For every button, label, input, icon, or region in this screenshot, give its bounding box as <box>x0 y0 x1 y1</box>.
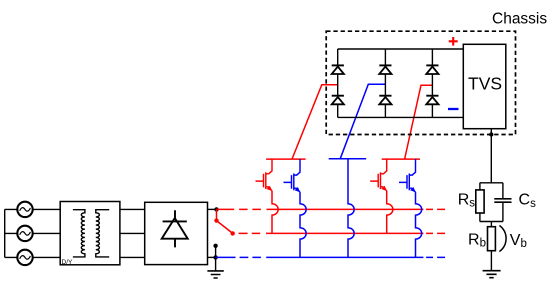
svg-text:Rs: Rs <box>458 191 476 209</box>
diode D1b <box>332 96 344 105</box>
svg-text:Chassis: Chassis <box>492 10 547 27</box>
label plus <box>449 37 458 46</box>
wire leg3 to bridge diagonal <box>405 85 433 159</box>
node P dot <box>214 207 218 211</box>
node chassis crossing dot <box>489 132 493 136</box>
wire sources to transformer <box>33 209 61 257</box>
wire Q3 emitter to rail 2 with hop <box>387 191 393 234</box>
phase leg 2 top bar (blue) <box>329 158 367 160</box>
wire leg2 column to blue rail with hops <box>348 159 354 258</box>
svg-text:Vb: Vb <box>510 232 527 250</box>
wire Q4 emitter to blue rail with hops <box>416 192 422 257</box>
voltage arc Vb <box>499 226 506 252</box>
ground G2 <box>483 271 501 278</box>
wire leg2 to bridge diagonal (blue) <box>340 84 385 159</box>
AC source V1 <box>17 202 32 217</box>
CM bridge top bar <box>338 48 464 50</box>
transistor Q3 (red IGBT) <box>370 159 387 191</box>
CM bridge leg 1 <box>337 49 339 117</box>
diode D3b <box>379 96 391 105</box>
diode D5 <box>426 65 438 74</box>
wire neutral bus <box>5 209 18 257</box>
CM bridge bottom bar <box>338 116 464 118</box>
AC source V2 <box>17 226 32 241</box>
wire leg1 to bridge diagonal <box>292 85 338 159</box>
AC source V3 <box>17 250 32 265</box>
wire rectifier positive output <box>208 208 217 210</box>
wire Q2 emitter to blue rail with hops <box>300 192 306 257</box>
switch S1 pole stub <box>216 209 218 220</box>
diode D3 <box>379 65 391 74</box>
rail DC+ option 2 <box>239 232 445 234</box>
transistor Q4 (blue IGBT) <box>399 160 416 192</box>
resistor Rs <box>479 183 481 222</box>
CM bridge leg 2 <box>384 49 386 117</box>
snubber top bar <box>480 182 503 184</box>
wire rectifier negative output <box>208 256 216 258</box>
transistor Q2 (blue IGBT) <box>284 160 301 192</box>
resistor Rb <box>488 227 496 251</box>
transformer secondary winding <box>96 210 109 257</box>
capacitor Cs <box>502 183 504 222</box>
svg-text:TVS: TVS <box>468 73 502 93</box>
label minus <box>448 108 459 110</box>
wire transformer to rectifier <box>120 209 145 257</box>
wire Q2 top stub <box>299 159 301 160</box>
wire TVS to snubber network <box>490 129 492 183</box>
switch S1 throw dot <box>231 231 235 235</box>
rectifier box <box>145 202 208 264</box>
TVS box <box>463 44 506 128</box>
rectifier diode symbol <box>162 210 188 247</box>
phase leg 3 top bar <box>382 158 420 160</box>
rail DC+ option 1 <box>217 208 446 210</box>
CM bridge leg 3 <box>431 49 433 117</box>
phase leg 1 top bar <box>266 158 306 160</box>
wire Rb to ground <box>490 251 492 271</box>
svg-text:Rb: Rb <box>468 232 486 250</box>
ground G1 <box>207 271 223 278</box>
svg-text:D/Y: D/Y <box>62 259 74 266</box>
chassis dashed boundary <box>326 31 515 134</box>
node N stub dot <box>213 244 217 248</box>
diode D5b <box>426 96 438 105</box>
wire to Rb <box>490 222 492 227</box>
wire Q1 emitter to rail 2 with hop <box>272 191 278 234</box>
node N junction dot <box>213 255 217 259</box>
rail DC- blue <box>216 256 445 258</box>
transistor Q1 (red IGBT) <box>256 159 273 191</box>
snubber bottom bar <box>480 221 503 223</box>
wire N stub to ground <box>215 246 217 271</box>
switch S1 pole dot <box>214 218 218 222</box>
diode D1 <box>332 65 344 74</box>
switch S1 blade <box>217 221 233 234</box>
transformer T1 box <box>60 202 120 265</box>
transformer primary winding <box>73 210 85 257</box>
svg-text:Cs: Cs <box>519 192 537 210</box>
wire Q4 top stub <box>415 159 417 160</box>
